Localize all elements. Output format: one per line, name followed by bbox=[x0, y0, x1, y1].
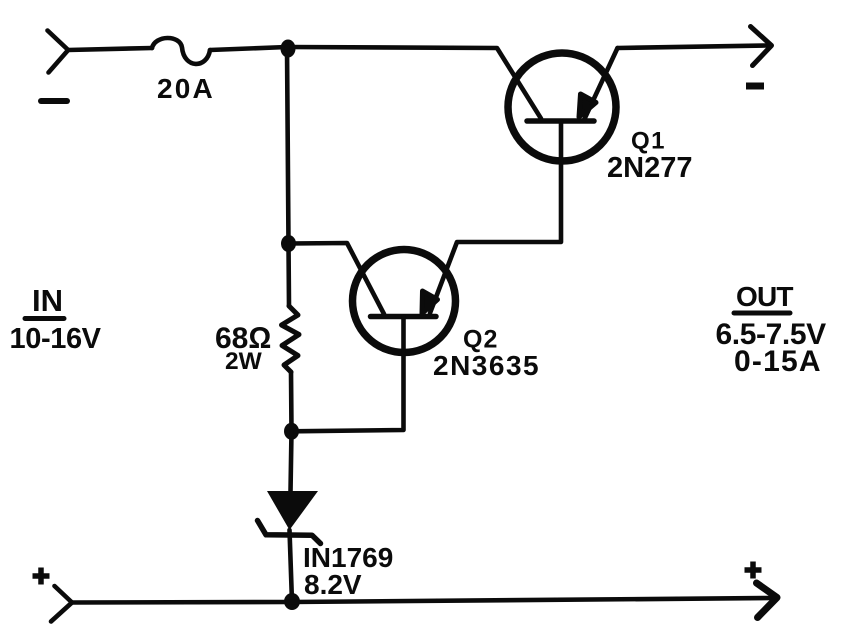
minus sign (output) bbox=[746, 83, 764, 90]
zener diode D1 1N1769 bbox=[258, 491, 321, 544]
svg-text:OUT: OUT bbox=[736, 281, 793, 312]
underline IN bbox=[25, 316, 64, 321]
minus sign (input) bbox=[41, 98, 67, 104]
svg-text:2W: 2W bbox=[225, 348, 263, 375]
transistor Q2 bbox=[353, 250, 456, 353]
wire node A to Q1 collector bbox=[287, 47, 541, 119]
input terminal (positive) bbox=[51, 586, 72, 622]
plus sign (output) bbox=[745, 562, 762, 579]
output terminal arrow (positive out) bbox=[757, 583, 778, 618]
transistor Q1 bbox=[508, 48, 618, 161]
svg-text:IN: IN bbox=[32, 283, 63, 318]
wire Q2 base to node C bbox=[292, 317, 404, 432]
node C junction bbox=[284, 423, 299, 440]
wire node A down to node B bbox=[287, 47, 289, 244]
underline OUT bbox=[734, 311, 790, 316]
wire node B to Q2 collector bbox=[289, 243, 385, 314]
svg-text:0-15A: 0-15A bbox=[734, 345, 822, 378]
plus sign (input) bbox=[33, 568, 50, 585]
wire zener to bottom rail bbox=[290, 530, 293, 602]
svg-text:8.2V: 8.2V bbox=[304, 569, 362, 600]
output terminal arrow (negative out) bbox=[751, 27, 772, 66]
svg-text:10-16V: 10-16V bbox=[10, 323, 102, 355]
input terminal (negative) bbox=[48, 31, 69, 73]
wire Q1 emitter to output bbox=[618, 46, 767, 49]
fuse F1 20A bbox=[152, 38, 210, 64]
svg-text:20A: 20A bbox=[157, 73, 215, 104]
svg-text:2N3635: 2N3635 bbox=[433, 350, 540, 381]
bottom rail wire bbox=[72, 598, 772, 603]
wire fuse to node A bbox=[210, 47, 287, 50]
wire node B down to resistor bbox=[286, 244, 291, 307]
wire input to fuse bbox=[68, 48, 152, 50]
wire Q1 base to Q2 emitter bbox=[430, 121, 561, 313]
node D junction (bottom rail) bbox=[284, 593, 300, 610]
svg-text:Q1: Q1 bbox=[631, 128, 666, 155]
svg-text:2N277: 2N277 bbox=[607, 152, 692, 184]
resistor R1 68ohm 2W bbox=[282, 306, 300, 372]
node A junction bbox=[281, 40, 296, 58]
wire resistor to node C bbox=[289, 372, 294, 431]
wire node C to zener bbox=[291, 431, 292, 492]
node B junction bbox=[281, 235, 296, 252]
